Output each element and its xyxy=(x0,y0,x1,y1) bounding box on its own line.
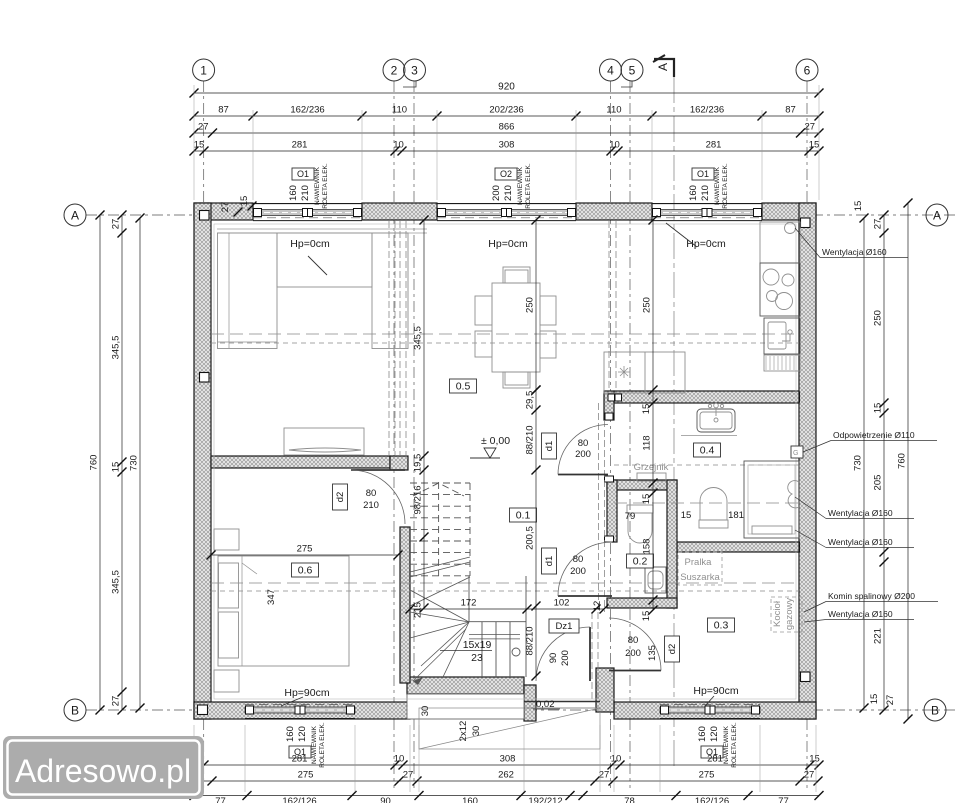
svg-text:160: 160 xyxy=(688,185,699,201)
svg-text:110: 110 xyxy=(392,105,407,116)
svg-text:0.2: 0.2 xyxy=(633,556,648,568)
svg-text:160: 160 xyxy=(285,726,296,742)
svg-text:200: 200 xyxy=(491,185,502,201)
svg-text:345,5: 345,5 xyxy=(111,336,122,360)
svg-text:10: 10 xyxy=(394,754,405,765)
svg-text:Pralka: Pralka xyxy=(685,557,713,568)
svg-text:6: 6 xyxy=(804,64,811,78)
svg-text:0.6: 0.6 xyxy=(298,565,313,577)
svg-text:210: 210 xyxy=(700,185,711,201)
svg-text:210: 210 xyxy=(363,500,379,511)
svg-text:275: 275 xyxy=(699,770,715,781)
svg-text:A: A xyxy=(71,209,79,223)
svg-text:Grzejnik: Grzejnik xyxy=(634,462,669,473)
svg-text:162/126: 162/126 xyxy=(695,796,729,803)
svg-text:78: 78 xyxy=(624,796,635,803)
svg-text:15: 15 xyxy=(869,694,880,705)
svg-text:210: 210 xyxy=(503,185,514,201)
svg-text:160: 160 xyxy=(288,185,299,201)
svg-text:281: 281 xyxy=(292,754,308,765)
svg-text:27: 27 xyxy=(403,770,414,781)
svg-text:27: 27 xyxy=(111,219,122,230)
svg-text:80: 80 xyxy=(366,488,377,499)
svg-text:88/210: 88/210 xyxy=(525,425,536,454)
svg-text:23: 23 xyxy=(471,652,483,664)
svg-text:308: 308 xyxy=(500,754,516,765)
svg-text:d1: d1 xyxy=(544,556,555,567)
svg-text:730: 730 xyxy=(853,455,864,471)
svg-text:160: 160 xyxy=(697,726,708,742)
svg-text:Hp=0cm: Hp=0cm xyxy=(488,238,528,250)
svg-text:27: 27 xyxy=(599,770,610,781)
svg-text:d2: d2 xyxy=(667,644,678,655)
svg-text:ROLETA ELEK.: ROLETA ELEK. xyxy=(731,722,738,768)
svg-text:Hp=90cm: Hp=90cm xyxy=(693,685,738,697)
svg-text:120: 120 xyxy=(297,726,308,742)
svg-text:10: 10 xyxy=(393,140,404,151)
svg-text:30: 30 xyxy=(420,706,431,717)
svg-text:181: 181 xyxy=(728,510,744,521)
svg-text:760: 760 xyxy=(89,455,100,471)
svg-text:NAWIEWNIK: NAWIEWNIK xyxy=(723,725,730,764)
svg-text:27: 27 xyxy=(873,219,884,230)
svg-text:d1: d1 xyxy=(544,441,555,452)
svg-text:345,5: 345,5 xyxy=(413,326,424,350)
svg-text:15: 15 xyxy=(239,196,250,207)
svg-text:ROLETA ELEK.: ROLETA ELEK. xyxy=(525,163,532,209)
svg-text:250: 250 xyxy=(525,297,536,313)
svg-text:d2: d2 xyxy=(335,492,346,503)
svg-text:250: 250 xyxy=(642,297,653,313)
svg-text:162/126: 162/126 xyxy=(282,796,316,803)
svg-text:15x19: 15x19 xyxy=(463,639,492,651)
svg-text:80: 80 xyxy=(573,554,584,565)
svg-text:15: 15 xyxy=(853,201,864,212)
svg-text:172: 172 xyxy=(461,598,477,609)
svg-text:15: 15 xyxy=(111,462,122,473)
svg-text:345,5: 345,5 xyxy=(111,570,122,594)
svg-text:15: 15 xyxy=(681,510,692,521)
svg-text:Suszarka: Suszarka xyxy=(680,572,720,583)
svg-text:NAWIEWNIK: NAWIEWNIK xyxy=(714,166,721,205)
svg-text:NAWIEWNIK: NAWIEWNIK xyxy=(517,166,524,205)
svg-text:5: 5 xyxy=(629,64,636,78)
svg-text:760: 760 xyxy=(897,453,908,469)
svg-text:90: 90 xyxy=(380,796,391,803)
svg-text:250: 250 xyxy=(873,310,884,326)
svg-text:1: 1 xyxy=(200,64,207,78)
svg-text:B: B xyxy=(931,704,939,718)
svg-text:Wentylacja Ø160: Wentylacja Ø160 xyxy=(828,508,893,518)
svg-text:A: A xyxy=(933,209,941,223)
svg-text:87: 87 xyxy=(218,105,229,116)
svg-text:102: 102 xyxy=(554,598,570,609)
svg-text:B: B xyxy=(71,704,79,718)
svg-text:± 0,00: ± 0,00 xyxy=(481,435,510,447)
svg-text:Hp=0cm: Hp=0cm xyxy=(686,238,726,250)
svg-text:4: 4 xyxy=(607,64,614,78)
svg-text:27: 27 xyxy=(804,770,815,781)
svg-text:88/210: 88/210 xyxy=(525,626,536,655)
svg-text:158: 158 xyxy=(642,539,653,555)
svg-text:12: 12 xyxy=(592,601,603,612)
svg-text:O1: O1 xyxy=(697,169,709,179)
svg-text:866: 866 xyxy=(499,122,515,133)
svg-text:275: 275 xyxy=(298,770,314,781)
svg-text:G: G xyxy=(793,450,798,457)
svg-text:162/236: 162/236 xyxy=(690,105,724,116)
svg-text:ROLETA ELEK.: ROLETA ELEK. xyxy=(722,163,729,209)
svg-text:160: 160 xyxy=(462,796,478,803)
svg-text:NAWIEWNIK: NAWIEWNIK xyxy=(311,725,318,764)
svg-text:192/212: 192/212 xyxy=(528,796,562,803)
svg-text:87: 87 xyxy=(785,105,796,116)
svg-text:0,02: 0,02 xyxy=(536,699,555,710)
svg-text:162/236: 162/236 xyxy=(290,105,324,116)
svg-text:27: 27 xyxy=(220,202,231,213)
svg-text:19,5: 19,5 xyxy=(413,454,424,473)
svg-text:281: 281 xyxy=(707,754,723,765)
svg-text:Dz1: Dz1 xyxy=(556,621,573,632)
svg-text:200,5: 200,5 xyxy=(525,526,536,550)
svg-text:120: 120 xyxy=(709,726,720,742)
svg-text:Wentylacja Ø160: Wentylacja Ø160 xyxy=(828,537,893,547)
svg-text:2x12: 2x12 xyxy=(458,721,469,742)
svg-text:29,5: 29,5 xyxy=(525,391,536,410)
svg-text:202/236: 202/236 xyxy=(489,105,523,116)
svg-text:O1: O1 xyxy=(297,169,309,179)
svg-text:15: 15 xyxy=(809,140,820,151)
svg-text:0.3: 0.3 xyxy=(714,620,729,632)
svg-text:3: 3 xyxy=(411,64,418,78)
svg-text:262: 262 xyxy=(498,770,514,781)
svg-text:NAWIEWNIK: NAWIEWNIK xyxy=(314,166,321,205)
svg-text:215: 215 xyxy=(413,602,424,618)
svg-text:2: 2 xyxy=(391,64,398,78)
svg-text:10: 10 xyxy=(609,140,620,151)
svg-text:ROLETA ELEK.: ROLETA ELEK. xyxy=(319,722,326,768)
svg-text:27: 27 xyxy=(198,122,209,133)
svg-text:200: 200 xyxy=(570,566,586,577)
svg-text:730: 730 xyxy=(129,455,140,471)
svg-text:200: 200 xyxy=(560,650,571,666)
svg-text:77: 77 xyxy=(215,796,226,803)
svg-text:80: 80 xyxy=(628,635,639,646)
svg-text:0.1: 0.1 xyxy=(516,510,531,522)
svg-text:gazowy: gazowy xyxy=(784,598,795,630)
svg-text:15: 15 xyxy=(641,611,652,622)
svg-text:0.5: 0.5 xyxy=(456,381,471,393)
svg-text:90: 90 xyxy=(548,653,559,664)
svg-text:Wentylacja Ø160: Wentylacja Ø160 xyxy=(822,247,887,257)
svg-text:30: 30 xyxy=(471,726,482,737)
svg-text:118: 118 xyxy=(642,435,653,450)
svg-text:15: 15 xyxy=(641,404,652,415)
svg-text:77: 77 xyxy=(778,796,789,803)
svg-text:O2: O2 xyxy=(500,169,512,179)
svg-text:347: 347 xyxy=(266,589,277,605)
svg-text:79: 79 xyxy=(625,511,636,522)
svg-text:Komin spalinowy Ø200: Komin spalinowy Ø200 xyxy=(828,591,915,601)
svg-text:Hp=0cm: Hp=0cm xyxy=(290,238,330,250)
svg-text:27: 27 xyxy=(804,122,815,133)
svg-text:10: 10 xyxy=(611,754,622,765)
svg-text:205: 205 xyxy=(873,475,884,491)
svg-text:15: 15 xyxy=(194,140,205,151)
svg-text:920: 920 xyxy=(498,82,515,93)
svg-text:0.4: 0.4 xyxy=(700,445,715,457)
svg-text:15: 15 xyxy=(641,494,652,505)
svg-text:ROLETA ELEK.: ROLETA ELEK. xyxy=(322,163,329,209)
svg-text:281: 281 xyxy=(706,140,722,151)
svg-text:Hp=90cm: Hp=90cm xyxy=(284,687,329,699)
svg-text:Odpowietrzenie Ø110: Odpowietrzenie Ø110 xyxy=(833,430,915,440)
svg-text:Kocioł: Kocioł xyxy=(772,600,783,627)
svg-text:27: 27 xyxy=(885,695,896,706)
svg-text:308: 308 xyxy=(499,140,515,151)
svg-text:110: 110 xyxy=(606,105,621,116)
svg-text:98/216: 98/216 xyxy=(413,485,424,514)
svg-text:275: 275 xyxy=(297,544,313,555)
svg-text:210: 210 xyxy=(300,185,311,201)
svg-text:15: 15 xyxy=(809,754,820,765)
svg-text:15: 15 xyxy=(873,403,884,414)
svg-text:200: 200 xyxy=(575,449,591,460)
svg-text:A: A xyxy=(656,63,670,71)
svg-text:221: 221 xyxy=(873,628,884,644)
svg-text:Adresowo.pl: Adresowo.pl xyxy=(15,753,191,789)
svg-text:27: 27 xyxy=(111,696,122,707)
svg-text:281: 281 xyxy=(292,140,308,151)
svg-text:135: 135 xyxy=(647,645,658,661)
svg-text:80: 80 xyxy=(578,438,589,449)
svg-text:200: 200 xyxy=(625,648,641,659)
svg-text:Wentylacja Ø160: Wentylacja Ø160 xyxy=(828,609,893,619)
